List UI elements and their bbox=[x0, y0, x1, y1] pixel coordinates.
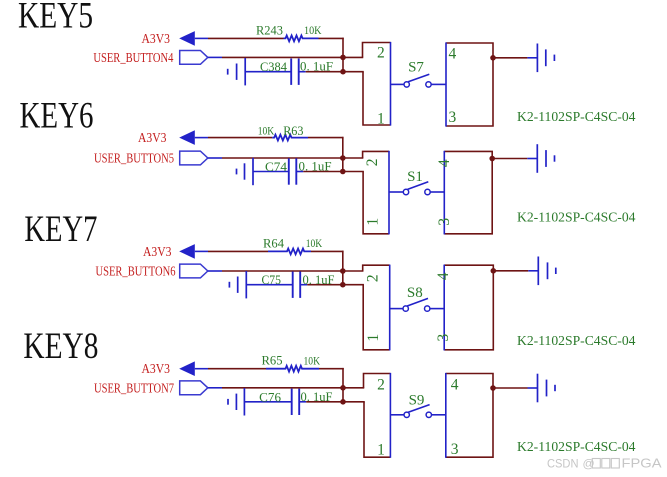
svg-text:FPGA: FPGA bbox=[622, 457, 663, 471]
wire: S8 pole bar (left) bbox=[389, 265, 391, 351]
wire: ground to capacitor C76 bbox=[244, 401, 291, 403]
switch S8 body (pins 3/4 side) bbox=[444, 265, 493, 350]
wire: node to S7 pin 1 bbox=[343, 71, 364, 73]
svg-text:K2-1102SP-C4SC-04: K2-1102SP-C4SC-04 bbox=[517, 211, 636, 226]
wire: node to S9 pin 2 bbox=[343, 387, 364, 389]
ground symbol (right) lead bbox=[527, 57, 537, 59]
wire: port lead bbox=[208, 157, 222, 159]
resistor R64 bbox=[268, 249, 311, 255]
svg-text:3: 3 bbox=[449, 109, 457, 126]
svg-text:C74: C74 bbox=[265, 159, 288, 174]
wire: S9 contact to right pole bbox=[432, 414, 446, 416]
svg-text:10K: 10K bbox=[304, 23, 322, 37]
ground symbol (left of C75) bbox=[228, 282, 230, 288]
wire: A3V3 net to resistor R64 bbox=[208, 250, 268, 252]
svg-text:S7: S7 bbox=[408, 60, 424, 76]
svg-text:1: 1 bbox=[377, 111, 385, 128]
capacitor C75 bbox=[292, 272, 294, 298]
wire: A3V3 net to resistor R63 bbox=[208, 137, 272, 139]
power symbol A3V3 arrow (KEY8) bbox=[179, 361, 195, 376]
wire: S8 contact to right pole bbox=[430, 308, 444, 310]
switch S7 body (pins 3/4 side) bbox=[446, 43, 493, 126]
wire: A3V3 net to resistor R65 bbox=[208, 368, 266, 370]
svg-text:4: 4 bbox=[436, 159, 453, 167]
svg-text:0. 1uF: 0. 1uF bbox=[303, 272, 335, 287]
svg-text:A3V3: A3V3 bbox=[142, 361, 171, 376]
svg-text:10K: 10K bbox=[258, 123, 275, 137]
svg-text:R63: R63 bbox=[283, 123, 303, 138]
wire: capacitor C74 to switch pin 1 bbox=[303, 171, 343, 173]
ground symbol (right) bbox=[537, 374, 539, 403]
svg-text:1: 1 bbox=[377, 441, 385, 458]
wire: node to S8 pin 2 bbox=[343, 270, 364, 272]
switch S8 body (pins 1/2 side) bbox=[363, 265, 390, 271]
wire: A3V3 arrow lead bbox=[195, 137, 208, 139]
svg-text:2: 2 bbox=[364, 274, 381, 282]
port USER_BUTTON4 symbol bbox=[180, 51, 208, 65]
wire: pull-up vertical drop bbox=[342, 137, 344, 172]
wire: resistor R64 to pull-up node bbox=[311, 250, 344, 252]
svg-text:A3V3: A3V3 bbox=[142, 31, 171, 46]
junction: S1 pin 4 / ground net bbox=[489, 156, 495, 162]
wire: A3V3 arrow lead bbox=[195, 250, 208, 252]
ground symbol (left of C74) bbox=[236, 169, 238, 175]
junction: S8 pin 4 / ground net bbox=[491, 268, 497, 274]
svg-text:4: 4 bbox=[435, 272, 452, 280]
junction: pull-up / capacitor net (KEY8) bbox=[340, 399, 346, 405]
wire: S1 pole bar (right) bbox=[443, 151, 445, 235]
junction: pull-up / capacitor net (KEY5) bbox=[340, 69, 346, 75]
wire: S9 pole bar (right) bbox=[445, 373, 447, 458]
wire: resistor R63 to pull-up node bbox=[308, 137, 344, 139]
wire: S1 pole bar (left) bbox=[388, 151, 390, 235]
svg-text:0. 1uF: 0. 1uF bbox=[299, 159, 332, 174]
switch S1 body (pins 1/2 side) bbox=[363, 151, 389, 158]
svg-text:S1: S1 bbox=[407, 169, 423, 185]
switch S1 body (pins 3/4 side) bbox=[444, 151, 492, 233]
wire: node to S8 pin 1 bbox=[343, 284, 364, 286]
wire: S9 left pole to contact bbox=[390, 414, 403, 416]
port USER_BUTTON6 symbol bbox=[180, 264, 208, 278]
port USER_BUTTON7 symbol bbox=[180, 381, 208, 395]
svg-text:C75: C75 bbox=[262, 272, 282, 287]
wire: S1 pin 4 to ground bbox=[492, 158, 527, 160]
ground symbol (right) lead bbox=[528, 387, 538, 389]
svg-text:2: 2 bbox=[377, 377, 385, 394]
wire: S7 pole bar (right) bbox=[445, 42, 447, 126]
wire: resistor R243 to pull-up node bbox=[319, 37, 344, 39]
ground symbol (right) bbox=[536, 144, 538, 173]
svg-text:4: 4 bbox=[451, 376, 459, 393]
switch S9 body (pins 3/4 side) bbox=[446, 374, 493, 458]
svg-text:0. 1uF: 0. 1uF bbox=[301, 389, 333, 404]
switch S1 contact circles and lever bbox=[403, 189, 408, 194]
wire: A3V3 net to resistor R243 bbox=[208, 37, 284, 39]
wire: ground to capacitor C384 bbox=[245, 71, 291, 73]
port USER_BUTTON5 symbol bbox=[180, 151, 208, 165]
switch S9 body (pins 1/2 side) bbox=[364, 374, 391, 388]
wire: USER_BUTTON4 net to switch pin 2 bbox=[222, 56, 343, 58]
wire: port lead bbox=[208, 387, 222, 389]
svg-text:K2-1102SP-C4SC-04: K2-1102SP-C4SC-04 bbox=[517, 440, 636, 455]
svg-text:USER_BUTTON6: USER_BUTTON6 bbox=[96, 264, 176, 279]
wire: S7 contact to right pole bbox=[431, 83, 446, 85]
wire: node to S1 pin 2 bbox=[343, 157, 364, 159]
svg-text:10K: 10K bbox=[304, 354, 321, 368]
capacitor C74 bbox=[288, 158, 290, 184]
wire: port lead bbox=[208, 56, 222, 58]
junction: pull-up / button net (KEY7) bbox=[340, 268, 346, 274]
wire: S8 left pole to contact bbox=[390, 308, 403, 310]
wire: pull-up vertical drop bbox=[342, 251, 344, 285]
svg-text:K2-1102SP-C4SC-04: K2-1102SP-C4SC-04 bbox=[517, 110, 636, 125]
svg-text:10K: 10K bbox=[306, 236, 323, 250]
switch S7 contact circles and lever bbox=[404, 82, 409, 87]
ground symbol (right) bbox=[537, 257, 539, 286]
wire: S7 left pole to contact bbox=[391, 83, 404, 85]
wire: S1 contact to right pole bbox=[430, 191, 444, 193]
wire: A3V3 arrow lead bbox=[195, 368, 208, 370]
ground symbol (right) bbox=[536, 44, 538, 73]
wire: S1 left pole to contact bbox=[389, 191, 403, 193]
svg-text:A3V3: A3V3 bbox=[138, 130, 167, 145]
wire: USER_BUTTON6 net to switch pin 2 bbox=[222, 270, 343, 272]
svg-text:K2-1102SP-C4SC-04: K2-1102SP-C4SC-04 bbox=[517, 334, 636, 349]
svg-text:USER_BUTTON4: USER_BUTTON4 bbox=[93, 50, 173, 65]
wire: A3V3 arrow lead bbox=[195, 37, 208, 39]
wire: S8 pole bar (right) bbox=[443, 265, 445, 351]
wire: port lead bbox=[208, 270, 222, 272]
svg-text:R243: R243 bbox=[256, 23, 283, 38]
svg-text:KEY5: KEY5 bbox=[18, 0, 93, 37]
svg-text:2: 2 bbox=[377, 45, 385, 62]
svg-text:4: 4 bbox=[449, 46, 457, 63]
svg-text:3: 3 bbox=[436, 218, 453, 226]
wire: S9 pole bar (left) bbox=[389, 373, 391, 458]
svg-text:R65: R65 bbox=[262, 353, 283, 368]
wire: S7 pin 4 to ground bbox=[493, 57, 527, 59]
svg-text:R64: R64 bbox=[263, 235, 284, 250]
ground symbol (left of C76) bbox=[227, 399, 229, 405]
resistor R65 bbox=[266, 366, 319, 372]
power symbol A3V3 arrow (KEY6) bbox=[179, 130, 195, 145]
junction: pull-up / capacitor net (KEY6) bbox=[340, 169, 346, 175]
svg-text:USER_BUTTON5: USER_BUTTON5 bbox=[94, 151, 174, 166]
switch S9 contact circles and lever bbox=[404, 412, 409, 417]
junction: pull-up / button net (KEY6) bbox=[340, 155, 346, 161]
svg-text:0. 1uF: 0. 1uF bbox=[300, 59, 333, 74]
svg-text:KEY7: KEY7 bbox=[24, 209, 97, 250]
wire: capacitor C384 to switch pin 1 bbox=[306, 71, 343, 73]
ground symbol (right) lead bbox=[528, 270, 538, 272]
wire: resistor R65 to pull-up node bbox=[319, 368, 344, 370]
svg-text:CSDN: CSDN bbox=[547, 457, 579, 471]
switch S7 body (pins 1/2 side) bbox=[363, 43, 391, 58]
wire: pull-up vertical drop bbox=[342, 368, 344, 402]
svg-text:1: 1 bbox=[365, 334, 382, 342]
power symbol A3V3 arrow (KEY5) bbox=[179, 31, 195, 46]
resistor R63 bbox=[272, 135, 308, 141]
wire: node to S9 pin 1 bbox=[343, 401, 365, 403]
capacitor C76 bbox=[291, 389, 293, 415]
wire: pull-up vertical drop bbox=[342, 38, 344, 72]
wire: node to S7 pin 2 bbox=[343, 56, 363, 58]
wire: capacitor C76 to switch pin 1 bbox=[306, 401, 343, 403]
junction: pull-up / capacitor net (KEY7) bbox=[340, 282, 346, 288]
wire: USER_BUTTON5 net to switch pin 2 bbox=[222, 157, 343, 159]
junction: S9 pin 4 / ground net bbox=[490, 385, 496, 391]
svg-text:3: 3 bbox=[451, 441, 459, 458]
power symbol A3V3 arrow (KEY7) bbox=[179, 244, 195, 259]
wire: S9 pin 4 to ground bbox=[493, 387, 528, 389]
wire: node to S1 pin 1 bbox=[343, 171, 364, 173]
junction: pull-up / button net (KEY8) bbox=[340, 385, 346, 391]
wire: S7 pole bar (left) bbox=[390, 42, 392, 126]
wire: capacitor C75 to switch pin 1 bbox=[307, 284, 343, 286]
svg-text:S9: S9 bbox=[409, 393, 425, 409]
svg-text:KEY8: KEY8 bbox=[23, 326, 98, 367]
svg-text:1: 1 bbox=[364, 218, 381, 226]
ground symbol (left of C384) bbox=[227, 69, 229, 75]
wire: S8 pin 4 to ground bbox=[493, 270, 528, 272]
svg-text:USER_BUTTON7: USER_BUTTON7 bbox=[94, 380, 174, 395]
resistor R243 bbox=[284, 36, 319, 42]
svg-text:2: 2 bbox=[364, 159, 381, 167]
svg-text:C76: C76 bbox=[259, 389, 281, 404]
svg-text:A3V3: A3V3 bbox=[143, 244, 172, 259]
svg-text:C384: C384 bbox=[260, 59, 287, 74]
svg-text:KEY6: KEY6 bbox=[20, 95, 94, 136]
ground symbol (right) lead bbox=[527, 158, 537, 160]
wire: USER_BUTTON7 net to switch pin 2 bbox=[222, 387, 343, 389]
svg-text:S8: S8 bbox=[407, 285, 423, 301]
switch S8 contact circles and lever bbox=[403, 306, 408, 311]
junction: S7 pin 4 / ground net bbox=[490, 55, 496, 61]
capacitor C384 bbox=[290, 59, 292, 85]
svg-text:3: 3 bbox=[435, 333, 452, 341]
wire: ground to capacitor C74 bbox=[253, 171, 289, 173]
wire: ground to capacitor C75 bbox=[246, 284, 292, 286]
junction: pull-up / button net (KEY5) bbox=[340, 55, 346, 61]
